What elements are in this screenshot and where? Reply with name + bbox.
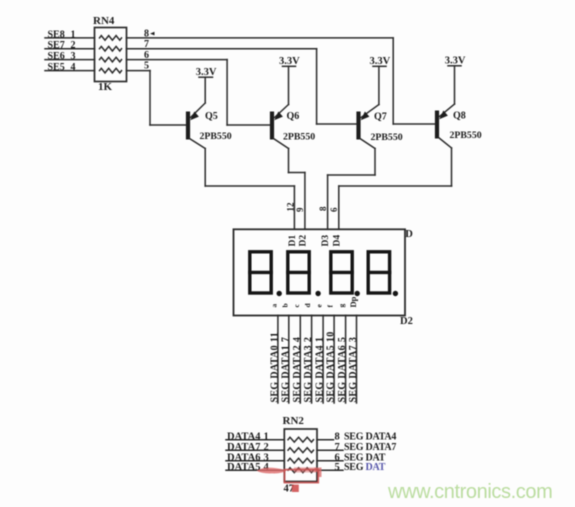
red annotation rectangle outline [285, 470, 319, 483]
svg-text:D4: D4 [332, 235, 342, 247]
transistor Q8 [435, 104, 455, 148]
power 3.3V bar Q8 [448, 65, 461, 67]
svg-text:D1: D1 [288, 235, 298, 247]
svg-text:DAT: DAT [366, 462, 386, 473]
wire segment e / SEG DATA4 [322, 315, 324, 403]
svg-text:SEG DATA5 10: SEG DATA5 10 [326, 331, 337, 402]
wire RN4 pin8 to Q8 base (horizontal) [127, 37, 394, 39]
svg-text:c: c [292, 304, 301, 308]
svg-text:SEG DATA4 1: SEG DATA4 1 [315, 337, 326, 403]
digit 4 segments [368, 252, 389, 293]
svg-text:SEG DATA6 5: SEG DATA6 5 [337, 337, 348, 403]
svg-text:8: 8 [318, 206, 328, 211]
svg-text:2: 2 [264, 442, 269, 453]
wire segment b / SEG DATA1 [288, 315, 290, 403]
wire Q7 collector vertical [374, 149, 376, 176]
wire display pin8 drop [327, 175, 329, 229]
wire DATA7 input [226, 449, 284, 451]
svg-text:8: 8 [335, 431, 340, 442]
svg-text:2PB550: 2PB550 [283, 132, 315, 143]
svg-text:D: D [405, 229, 413, 240]
wire Q8 base [393, 123, 435, 125]
svg-text:b: b [280, 303, 289, 307]
wire segment a / SEG DATA0 [277, 315, 279, 403]
wire display pin12 drop [293, 186, 295, 229]
RN2 resistor element row1 [288, 437, 313, 442]
digit 4 decimal point [393, 291, 398, 296]
svg-text:SEG DATA2 4: SEG DATA2 4 [292, 337, 303, 403]
svg-text:RN2: RN2 [283, 415, 305, 427]
svg-text:SEG DATA1 7: SEG DATA1 7 [280, 337, 291, 403]
wire Q6 collector vertical [288, 149, 290, 173]
svg-text:3.3V: 3.3V [370, 56, 391, 67]
svg-text:12: 12 [286, 202, 296, 212]
wire display pin6 drop [338, 186, 340, 229]
RN2 resistor element row4 [288, 468, 313, 473]
svg-text:D2: D2 [298, 235, 308, 247]
wire segment d / SEG DATA3 [311, 315, 313, 403]
svg-text:1: 1 [264, 431, 269, 442]
digit 1 segments [250, 252, 271, 293]
svg-text:SEG DATA7 3: SEG DATA7 3 [348, 337, 359, 403]
wire segment c / SEG DATA2 [299, 315, 301, 403]
svg-text:SEG DATA3 2: SEG DATA3 2 [303, 337, 314, 403]
wire 3.3V to Q6 emitter [288, 66, 290, 104]
transistor Q7 [356, 105, 379, 149]
wire 3.3V to Q7 emitter [378, 66, 380, 104]
svg-text:1K: 1K [98, 81, 113, 93]
wire Q8 collector to display pin6 [339, 185, 452, 187]
pin 8 arrow mark [150, 32, 155, 36]
svg-text:2PB550: 2PB550 [200, 131, 232, 142]
svg-text:SE7: SE7 [48, 40, 65, 51]
wire Q6 collector to display pin9 [289, 172, 305, 174]
wire RN2 pin7 output [317, 449, 343, 451]
wire Q7 base [317, 123, 357, 125]
wire display pin9 drop [304, 173, 306, 230]
wire RN4 pin7 vertical drop [316, 49, 318, 124]
svg-text:4: 4 [71, 62, 76, 73]
svg-text:SEG DATA0 11: SEG DATA0 11 [269, 332, 280, 403]
wire DATA6 input [226, 460, 284, 462]
wire DATA5 input [226, 469, 284, 471]
svg-text:6: 6 [329, 207, 339, 212]
digit 1 decimal point [277, 291, 282, 296]
svg-text:Q6: Q6 [287, 111, 300, 122]
svg-text:RN4: RN4 [93, 15, 115, 27]
svg-text:2PB550: 2PB550 [450, 130, 482, 141]
digit 2 decimal point [315, 291, 320, 296]
wire RN4 pin5 to Q5 base (horizontal) [127, 70, 151, 72]
power 3.3V bar Q7 [373, 65, 386, 67]
digit 2 segments [288, 252, 309, 293]
digit 3 segments [331, 252, 352, 293]
resistor network RN2 body [284, 429, 317, 482]
svg-text:5: 5 [335, 462, 340, 473]
wire SE7 input [45, 48, 95, 50]
svg-text:2PB550: 2PB550 [371, 132, 403, 143]
red annotation block over 470 zero [292, 485, 299, 492]
svg-text:SEG DATA4: SEG DATA4 [344, 431, 396, 442]
wire segment Dp / SEG DATA7 [356, 315, 358, 403]
svg-text:9: 9 [295, 207, 305, 212]
svg-text:Dp: Dp [348, 296, 358, 307]
digit 3 decimal point [355, 291, 360, 296]
power 3.3V bar Q6 [283, 65, 296, 67]
svg-text:a: a [269, 304, 278, 308]
wire RN2 pin5 output [317, 469, 343, 471]
power 3.3V bar Q5 [199, 76, 213, 78]
resistor network RN4 body [95, 28, 127, 82]
wire RN2 pin8 output [317, 439, 334, 441]
svg-text:3.3V: 3.3V [445, 56, 466, 67]
svg-text:DATA4: DATA4 [227, 431, 261, 442]
wire SE8 input [45, 37, 95, 39]
wire 3.3V to Q5 emitter [204, 77, 206, 103]
wire DATA4 input [226, 439, 284, 441]
wire RN4 pin7 to Q7 base (horizontal) [127, 48, 317, 50]
wire Q5 collector vertical [204, 149, 206, 187]
svg-text:SEG DATA7: SEG DATA7 [344, 442, 396, 453]
svg-text:g: g [337, 304, 346, 308]
transistor Q5 [186, 103, 205, 149]
RN4 resistor element row4 [100, 68, 122, 73]
7-segment display U-D2 body [234, 229, 406, 315]
wire RN4 pin5 vertical drop [149, 71, 151, 125]
svg-text:3.3V: 3.3V [196, 67, 217, 78]
RN4 resistor element row3 [100, 57, 122, 62]
wire segment g / SEG DATA6 [345, 315, 347, 403]
svg-text:SE6: SE6 [48, 51, 65, 62]
wire RN2 pin6 output [317, 460, 343, 462]
svg-text:DATA7: DATA7 [227, 442, 260, 453]
svg-text:D2: D2 [400, 316, 413, 327]
wire RN4 pin8 vertical drop [392, 38, 394, 124]
svg-text:7: 7 [335, 442, 340, 453]
wire Q6 base [227, 124, 270, 126]
svg-text:www.cntronics.com: www.cntronics.com [387, 481, 552, 503]
svg-text:Q5: Q5 [205, 111, 218, 122]
red annotation smear on RN2 resistor row4 [294, 467, 316, 472]
svg-text:SE5: SE5 [48, 62, 65, 73]
svg-text:3: 3 [71, 51, 76, 62]
RN2 resistor element row3 [288, 458, 313, 463]
RN4 resistor element row1 [100, 36, 122, 41]
svg-text:D3: D3 [321, 235, 331, 247]
wire Q8 collector vertical [451, 148, 453, 186]
wire RN4 pin6 vertical drop [226, 60, 228, 125]
transistor Q6 [270, 105, 289, 149]
svg-text:Q8: Q8 [453, 111, 466, 122]
RN2 resistor element row2 [288, 448, 313, 453]
svg-text:f: f [326, 305, 335, 308]
red annotation smear on DATA5 wire [257, 468, 288, 474]
svg-text:Q7: Q7 [374, 112, 387, 123]
wire segment f / SEG DATA5 [333, 315, 335, 403]
svg-text:DATA5: DATA5 [227, 462, 260, 473]
red annotation blob right of RN2 row4 [315, 468, 322, 478]
wire Q5 collector to display pin12 [205, 185, 294, 187]
wire RN4 pin6 to Q6 base (horizontal) [127, 59, 228, 61]
wire Q7 collector to display pin8 [328, 174, 375, 176]
svg-text:2: 2 [71, 40, 76, 51]
svg-text:3.3V: 3.3V [279, 56, 300, 67]
wire Q5 base [150, 124, 186, 126]
svg-text:1: 1 [71, 29, 76, 40]
wire SE5 input [45, 70, 95, 72]
svg-text:d: d [303, 303, 312, 308]
wire 3.3V to Q8 emitter [454, 66, 456, 104]
wire SE6 input [45, 59, 95, 61]
svg-text:SEG: SEG [344, 462, 364, 473]
RN4 resistor element row2 [100, 46, 122, 51]
svg-text:SE8: SE8 [48, 29, 65, 40]
svg-text:e: e [315, 304, 324, 308]
